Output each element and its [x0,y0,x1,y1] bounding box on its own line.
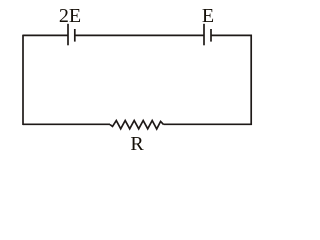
svg-text:E: E [202,5,214,27]
svg-text:2E: 2E [59,5,81,27]
wire: top-left segment from left corner to battery 2E [23,34,68,36]
battery cell 2E (long positive plate + short negative plate) [68,24,75,46]
battery cell E (long positive plate + short negative plate) [204,24,211,46]
wire: top-middle segment between battery 2E and battery E [75,34,204,36]
wire: right side vertical [250,35,252,125]
resistor R (zigzag) [110,121,164,130]
wire: bottom-right segment from resistor to right corner [164,123,252,125]
svg-text:R: R [130,133,144,155]
wire: top-right segment from battery E to right corner [211,34,252,36]
wire: left side vertical [22,35,24,125]
wire: bottom-left segment from left corner to resistor [23,123,110,125]
